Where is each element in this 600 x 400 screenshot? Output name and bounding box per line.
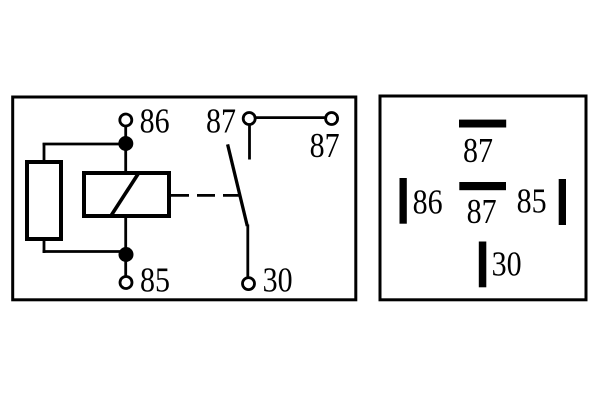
wire resistor top stub [43,143,46,162]
svg-text:87: 87 [206,102,236,141]
pin 87 pad center [459,182,506,190]
svg-text:30: 30 [492,245,522,284]
wire terminal 86 to coil top [124,126,127,173]
pin 30 pad bottom [479,242,487,288]
junction node top [118,136,133,151]
right pinout box border [380,96,586,300]
svg-text:30: 30 [263,260,293,299]
svg-text:85: 85 [517,181,547,220]
terminal 87a circle right [326,113,338,125]
wire coil bottom to terminal 85 [124,216,127,277]
switch armature SW1 [228,144,248,226]
pin 85 pad right [559,179,566,225]
junction node bottom [119,247,134,262]
wire 87 top link [256,116,325,119]
wire 87 contact drop [248,126,251,160]
terminal 85 circle [120,277,132,289]
pin 87a pad top [459,120,506,128]
terminal 30 circle [243,278,255,290]
svg-text:87: 87 [463,131,493,170]
resistor R1 [27,162,61,239]
terminal 87 circle [243,113,255,125]
svg-text:86: 86 [140,102,170,141]
svg-text:87: 87 [310,126,340,165]
relay coil K1 [84,173,169,217]
wire bottom horizontal to node 85 [43,250,127,253]
svg-text:87: 87 [467,192,497,231]
pin 86 pad left [400,178,407,224]
wire top horizontal to node 86 [43,143,127,146]
left schematic box border [13,97,356,300]
terminal 86 circle [120,114,132,126]
svg-text:85: 85 [140,260,170,299]
wire resistor bottom stub [43,239,46,253]
wire armature to terminal 30 [246,225,249,279]
svg-text:86: 86 [413,182,443,221]
dashed actuator link [171,194,240,197]
